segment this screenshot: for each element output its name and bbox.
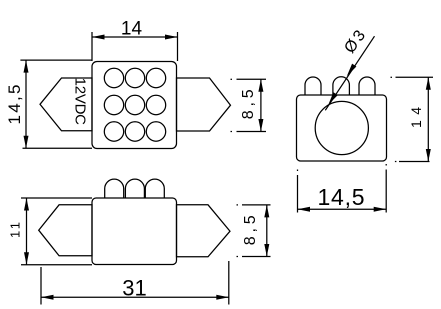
svg-text:14: 14	[121, 19, 143, 40]
svg-text:31: 31	[122, 275, 146, 300]
svg-text:8,5: 8,5	[242, 215, 259, 245]
svg-text:14,5: 14,5	[318, 184, 365, 210]
svg-text:8,5: 8,5	[240, 89, 257, 119]
svg-text:12VDC: 12VDC	[72, 78, 89, 126]
svg-text:14,5: 14,5	[5, 85, 24, 125]
svg-text:11: 11	[8, 222, 23, 238]
svg-text:Ø3: Ø3	[341, 25, 370, 56]
svg-text:14: 14	[408, 107, 424, 128]
